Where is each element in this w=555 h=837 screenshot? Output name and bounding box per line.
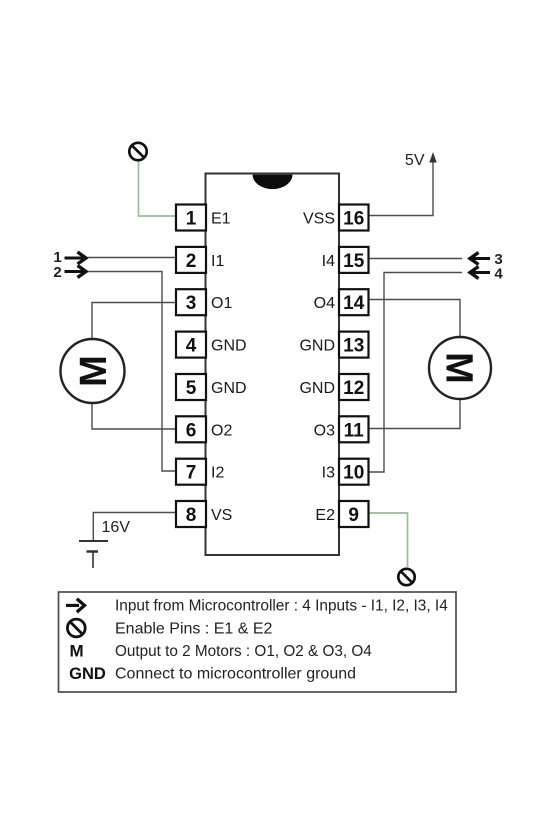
- svg-text:I2: I2: [211, 465, 224, 482]
- svg-text:16: 16: [343, 209, 364, 230]
- svg-text:2: 2: [186, 251, 197, 272]
- pin 16: [339, 205, 369, 231]
- 5V supply arrow: [429, 152, 436, 163]
- svg-text:12: 12: [343, 378, 364, 399]
- pin 2: [176, 247, 206, 273]
- svg-text:6: 6: [186, 420, 197, 441]
- svg-text:E2: E2: [315, 507, 335, 524]
- legend box: [59, 592, 457, 692]
- pin 15: [339, 247, 369, 273]
- pin 3: [176, 289, 206, 315]
- svg-text:10: 10: [343, 463, 364, 484]
- svg-text:M: M: [438, 352, 480, 384]
- svg-text:11: 11: [344, 420, 365, 441]
- pin 1: [176, 205, 206, 231]
- pin 13: [339, 332, 369, 358]
- legend arrow symbol: [66, 599, 85, 612]
- wire motor left to pin6 O2: [92, 402, 176, 429]
- svg-text:Enable Pins : E1 & E2: Enable Pins : E1 & E2: [115, 621, 273, 638]
- IC body U1 (16-pin DIP): [206, 174, 340, 556]
- arrow input 3: [470, 253, 490, 265]
- pin 8: [176, 501, 206, 527]
- svg-text:VS: VS: [211, 507, 232, 524]
- svg-text:O3: O3: [314, 422, 335, 439]
- svg-text:O2: O2: [211, 422, 232, 439]
- svg-text:16V: 16V: [102, 519, 131, 536]
- battery 16V: [79, 541, 108, 568]
- wire arrow1 to pin2: [88, 257, 176, 259]
- svg-text:14: 14: [343, 293, 365, 314]
- pin 12: [339, 374, 369, 400]
- svg-text:O4: O4: [314, 295, 335, 312]
- wire arrow2 to pin7: [88, 272, 176, 472]
- svg-text:I4: I4: [322, 253, 335, 270]
- svg-text:9: 9: [348, 505, 359, 526]
- arrow input 2: [65, 266, 87, 278]
- wire pin8 VS to battery: [93, 513, 176, 541]
- wire pin16 VSS to 5V: [369, 161, 434, 216]
- svg-text:I1: I1: [211, 253, 224, 270]
- legend enable symbol: [67, 619, 85, 637]
- svg-text:Output to 2 Motors : O1, O2 &: Output to 2 Motors : O1, O2 & O3, O4: [115, 643, 372, 660]
- svg-text:GND: GND: [211, 338, 247, 355]
- svg-text:13: 13: [343, 336, 364, 357]
- pin 11: [339, 416, 369, 442]
- pin 7: [176, 459, 206, 485]
- wire pin1 E1 green: [139, 161, 177, 216]
- wire pin9 E2 green: [369, 513, 408, 567]
- svg-text:2: 2: [53, 264, 61, 281]
- svg-text:4: 4: [494, 266, 503, 283]
- svg-text:VSS: VSS: [303, 211, 335, 228]
- pin 9: [339, 501, 369, 527]
- svg-text:GND: GND: [69, 665, 106, 683]
- pin 5: [176, 374, 206, 400]
- wire motor right to pin11 O3: [369, 398, 461, 429]
- svg-text:8: 8: [186, 505, 197, 526]
- svg-text:GND: GND: [299, 338, 335, 355]
- wire pin15 to arrow3: [369, 258, 463, 260]
- wire pin3 O1 to motor left: [92, 303, 176, 341]
- arrow input 1: [65, 252, 87, 264]
- svg-text:Connect to microcontroller gro: Connect to microcontroller ground: [115, 666, 356, 683]
- pin 14: [339, 289, 369, 315]
- svg-text:7: 7: [186, 463, 197, 484]
- enable symbol top-left: [129, 143, 146, 160]
- enable symbol bottom-right: [398, 569, 414, 585]
- svg-text:I3: I3: [322, 465, 335, 482]
- pin 4: [176, 332, 206, 358]
- svg-text:3: 3: [186, 293, 197, 314]
- svg-text:5: 5: [186, 378, 197, 399]
- pin 6: [176, 416, 206, 442]
- svg-text:GND: GND: [299, 380, 335, 397]
- arrow input 4: [470, 267, 490, 279]
- wire arrow4 to pin10: [369, 273, 463, 473]
- svg-text:E1: E1: [211, 211, 231, 228]
- wire pin14 O4 to motor right: [369, 300, 461, 339]
- IC notch: [253, 175, 293, 190]
- svg-text:O1: O1: [211, 295, 232, 312]
- svg-text:4: 4: [186, 336, 197, 357]
- motor M1 left: [61, 339, 125, 403]
- svg-text:M: M: [70, 642, 84, 661]
- svg-text:GND: GND: [211, 380, 247, 397]
- svg-text:5V: 5V: [405, 152, 425, 169]
- svg-text:15: 15: [343, 251, 365, 272]
- svg-text:Input from Microcontroller : 4: Input from Microcontroller : 4 Inputs - …: [115, 598, 448, 615]
- motor M2 right: [429, 337, 491, 399]
- svg-text:1: 1: [186, 209, 197, 230]
- pin 10: [339, 459, 369, 485]
- svg-text:M: M: [73, 355, 115, 387]
